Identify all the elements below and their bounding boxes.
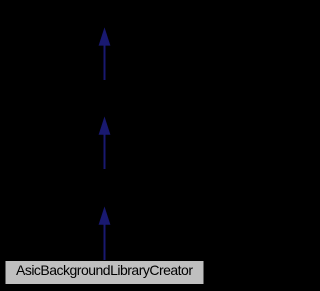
- inheritance graph canvas: [0, 0, 209, 291]
- inheritance arrow 3 (bottom): [99, 208, 110, 262]
- svg-text:AsicBackgroundLibraryCreator: AsicBackgroundLibraryCreator: [16, 262, 193, 278]
- inheritance arrow 2 (middle): [99, 118, 110, 170]
- class box AsicBackgroundLibraryCreator: [5, 261, 204, 285]
- inheritance arrow 1 (top): [99, 28, 110, 80]
